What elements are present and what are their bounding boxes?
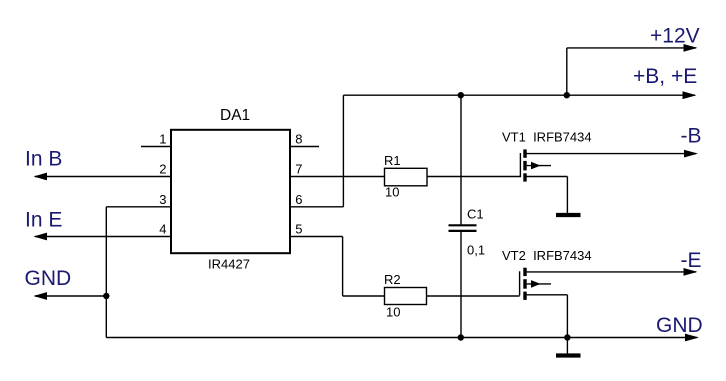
svg-text:10: 10 xyxy=(386,305,400,320)
arrow +12V right xyxy=(684,44,698,52)
svg-text:3: 3 xyxy=(159,192,166,207)
svg-text:2: 2 xyxy=(159,162,166,177)
svg-text:1: 1 xyxy=(159,132,166,147)
wire VT2 source vertical xyxy=(566,295,568,354)
svg-text:In B: In B xyxy=(25,148,62,171)
svg-text:VT1 IRFB7434: VT1 IRFB7434 xyxy=(502,130,592,145)
wire pin5 horizontal xyxy=(290,236,343,238)
resistor R2 xyxy=(385,288,427,305)
node rail-C1 top xyxy=(458,92,464,98)
wire +12V horizontal xyxy=(567,47,696,49)
node GND left junction xyxy=(103,293,109,299)
ground bar VT2 source xyxy=(556,353,581,357)
svg-text:R1: R1 xyxy=(384,153,401,168)
IC U1 DA1 IR4427 box xyxy=(171,130,290,253)
node junction dots xyxy=(103,92,571,341)
svg-text:GND: GND xyxy=(25,267,72,290)
svg-text:+12V: +12V xyxy=(650,25,700,48)
wire GND left arrow to junction xyxy=(35,295,106,297)
svg-text:DA1: DA1 xyxy=(220,107,250,124)
wire +12V vertical xyxy=(566,48,568,95)
ground bar VT1 source xyxy=(556,213,581,217)
wire +B +E rail xyxy=(343,94,695,96)
wire pin3 horizontal xyxy=(106,206,171,208)
arrow -B right xyxy=(684,150,698,158)
wire VT2 source horizontal xyxy=(525,294,567,296)
node rail +12V branch xyxy=(564,92,570,98)
wire pin6 horizontal xyxy=(290,206,343,208)
arrow +B +E right xyxy=(683,91,697,99)
transistor Q2 VT2 mosfet xyxy=(520,268,551,300)
node GND rail C1 xyxy=(458,334,464,340)
wire pin5 to R2 xyxy=(343,295,385,297)
transistor Q1 VT1 mosfet xyxy=(520,149,551,181)
wire pin1 stub xyxy=(141,146,171,148)
wire pin5 vertical xyxy=(342,237,344,297)
wire pin8 stub xyxy=(290,146,319,148)
wire VT2 drain to -E xyxy=(525,271,696,273)
svg-text:-E: -E xyxy=(681,249,702,272)
wire pin7 to R1 xyxy=(290,176,385,178)
svg-text:C1: C1 xyxy=(467,207,484,222)
svg-text:7: 7 xyxy=(295,162,302,177)
arrow In B left xyxy=(34,173,48,181)
arrow GND left xyxy=(34,292,48,300)
wire pin6 vertical to +B rail xyxy=(342,95,344,207)
wire C1 vertical upper xyxy=(460,95,462,224)
svg-text:IR4427: IR4427 xyxy=(208,257,250,272)
wire VT1 source horizontal xyxy=(525,176,567,178)
svg-text:4: 4 xyxy=(159,222,166,237)
arrow GND right xyxy=(685,334,699,342)
capacitor C1 plates xyxy=(449,225,477,231)
arrowheads xyxy=(34,44,700,341)
wire pin3 vertical to GND rail xyxy=(105,207,107,338)
svg-text:10: 10 xyxy=(385,185,399,200)
svg-text:8: 8 xyxy=(295,132,302,147)
wire pin4 to In E arrow xyxy=(35,236,171,238)
svg-text:-B: -B xyxy=(681,125,702,148)
svg-text:GND: GND xyxy=(656,314,703,337)
svg-text:+B, +E: +B, +E xyxy=(633,65,697,88)
wire GND rail xyxy=(106,337,697,339)
wire R2 to VT2 gate xyxy=(427,295,520,297)
svg-text:R2: R2 xyxy=(384,272,401,287)
wire R1 to VT1 gate xyxy=(427,176,520,178)
wire VT1 source vertical xyxy=(566,177,568,214)
wire C1 vertical lower xyxy=(460,232,462,338)
svg-text:VT2 IRFB7434: VT2 IRFB7434 xyxy=(502,248,592,263)
svg-text:0,1: 0,1 xyxy=(467,243,485,258)
wire VT1 drain to -B xyxy=(525,153,696,155)
arrow In E left xyxy=(34,233,48,241)
svg-text:5: 5 xyxy=(295,222,302,237)
svg-text:In E: In E xyxy=(25,209,62,232)
wire pin2 to In B arrow xyxy=(35,176,171,178)
arrow -E right xyxy=(684,268,698,276)
svg-text:6: 6 xyxy=(295,192,302,207)
node GND rail VT2 source xyxy=(564,334,570,340)
resistor R1 xyxy=(385,168,428,186)
